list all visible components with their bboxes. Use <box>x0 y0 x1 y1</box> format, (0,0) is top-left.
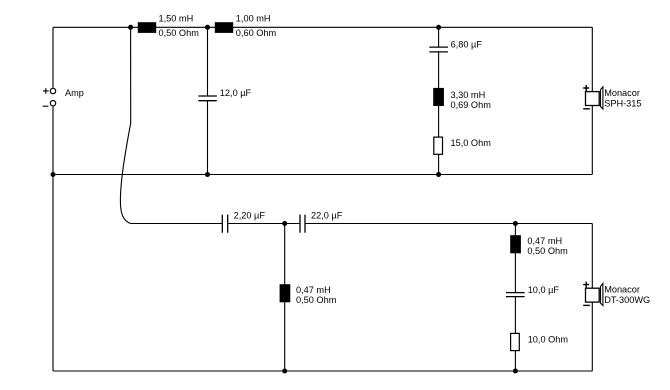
wire tweeter rail segment 3 <box>305 223 592 225</box>
svg-text:15,0 Ohm: 15,0 Ohm <box>451 138 492 148</box>
wire series branch lower <box>438 52 440 175</box>
wire tweeter feed S-curve <box>120 27 130 223</box>
amp minus sign <box>43 105 49 107</box>
amp terminal + circle <box>50 88 55 93</box>
junction node top rail at C1 branch <box>205 25 210 30</box>
wire capacitor C1 branch lower <box>207 101 209 175</box>
wire left from Amp minus terminal to bottom rail <box>52 106 54 371</box>
svg-text:0,47 mH: 0,47 mH <box>296 285 331 295</box>
speaker SP1 minus sign <box>583 108 590 110</box>
speaker SP2 box <box>586 288 600 302</box>
svg-text:3,30 mH: 3,30 mH <box>451 90 486 100</box>
svg-text:0,50 Ohm: 0,50 Ohm <box>527 246 568 256</box>
inductor L1 <box>138 22 156 33</box>
capacitor C5 plates <box>506 293 525 297</box>
wire right side tweeter loop <box>591 224 593 372</box>
inductor L2 <box>215 22 233 33</box>
capacitor C2 plates <box>429 47 448 52</box>
wire tweeter bottom rail <box>53 370 592 372</box>
speaker SP1 box <box>586 92 600 106</box>
speaker SP1 horn <box>601 87 603 109</box>
wire top rail <box>53 26 592 28</box>
wire series branch upper <box>438 27 440 47</box>
svg-text:DT-300WG: DT-300WG <box>604 295 650 305</box>
svg-text:12,0 µF: 12,0 µF <box>220 88 252 98</box>
svg-text:0,60 Ohm: 0,60 Ohm <box>236 28 277 38</box>
capacitor C1 plates <box>198 96 217 101</box>
speaker SP1 plus sign <box>583 85 589 91</box>
junction node tweeter bottom rail at L4 branch <box>282 369 287 374</box>
svg-text:10,0 µF: 10,0 µF <box>528 285 560 295</box>
wire RLC tweeter branch lower <box>514 297 516 371</box>
svg-text:22,0 µF: 22,0 µF <box>311 210 343 220</box>
resistor R2 <box>511 333 520 350</box>
svg-text:Monacor: Monacor <box>604 285 640 295</box>
svg-text:Monacor: Monacor <box>604 88 640 98</box>
inductor L4 <box>280 284 291 302</box>
svg-text:SPH-315: SPH-315 <box>604 98 641 108</box>
junction node woofer bottom rail at C1 branch <box>205 172 210 177</box>
svg-text:0,50 Ohm: 0,50 Ohm <box>159 28 200 38</box>
wire inductor L4 shunt branch <box>284 224 286 372</box>
capacitor C4 plates <box>300 215 305 233</box>
junction node tweeter rail at RLC branch <box>513 221 518 226</box>
wire left from top rail to Amp plus terminal <box>52 27 54 88</box>
junction node woofer bottom rail at left wire <box>51 172 56 177</box>
wire tweeter rail segment 2 <box>228 223 300 225</box>
svg-text:1,00 mH: 1,00 mH <box>236 13 271 23</box>
junction node top rail at tweeter feed <box>128 25 133 30</box>
wire RLC tweeter branch upper <box>514 224 516 293</box>
speaker SP2 horn <box>601 284 603 306</box>
junction node woofer bottom rail at series branch <box>436 172 441 177</box>
speaker SP2 plus sign <box>583 282 589 288</box>
speaker SP2 minus sign <box>583 304 590 306</box>
wire tweeter rail segment 1 <box>131 223 223 225</box>
resistor R1 <box>434 137 443 154</box>
junction node tweeter rail between capacitors <box>282 221 287 226</box>
amp plus sign <box>43 88 49 94</box>
svg-text:0,50 Ohm: 0,50 Ohm <box>296 295 337 305</box>
junction node top rail at series branch <box>436 25 441 30</box>
svg-text:Amp: Amp <box>65 88 84 98</box>
svg-text:10,0 Ohm: 10,0 Ohm <box>528 335 569 345</box>
svg-text:0,47 mH: 0,47 mH <box>527 236 562 246</box>
wire right side woofer loop <box>591 27 593 174</box>
amp terminal - circle <box>50 101 55 106</box>
svg-text:1,50 mH: 1,50 mH <box>159 13 194 23</box>
capacitor C3 plates <box>222 215 227 233</box>
svg-text:2,20 µF: 2,20 µF <box>234 210 266 220</box>
wire capacitor C1 branch upper <box>207 27 209 96</box>
svg-text:6,80 µF: 6,80 µF <box>451 39 483 49</box>
svg-text:0,69 Ohm: 0,69 Ohm <box>451 100 492 110</box>
inductor L3 <box>433 88 444 106</box>
wire woofer bottom rail <box>53 174 592 176</box>
inductor L5 <box>510 235 521 253</box>
junction node tweeter bottom rail at RLC branch <box>513 369 518 374</box>
